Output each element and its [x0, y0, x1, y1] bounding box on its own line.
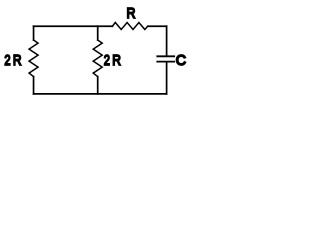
wire left branch top lead	[33, 26, 35, 40]
resistor 2R left (vertical zigzag)	[29, 40, 38, 77]
wire left branch bottom lead	[33, 77, 35, 94]
svg-text:R: R	[127, 5, 136, 22]
svg-text:2: 2	[104, 52, 110, 69]
wire right branch down to capacitor	[166, 26, 168, 55]
resistor R (top horizontal zigzag)	[112, 23, 147, 30]
wire top lead out of resistor R	[148, 25, 167, 27]
wire capacitor to bottom rail	[166, 62, 168, 93]
wire top rail left segment	[34, 25, 98, 27]
svg-text:C: C	[176, 52, 186, 69]
svg-text:R: R	[13, 52, 22, 69]
wire middle branch top lead	[97, 26, 99, 40]
wire middle branch bottom lead	[97, 77, 99, 94]
svg-text:2: 2	[4, 52, 10, 69]
capacitor C top plate	[157, 55, 174, 57]
resistor 2R middle (vertical zigzag)	[93, 40, 102, 77]
capacitor C bottom plate	[157, 61, 174, 63]
wire top lead into resistor R	[98, 25, 113, 27]
svg-text:R: R	[112, 52, 121, 69]
wire bottom rail	[34, 93, 167, 95]
